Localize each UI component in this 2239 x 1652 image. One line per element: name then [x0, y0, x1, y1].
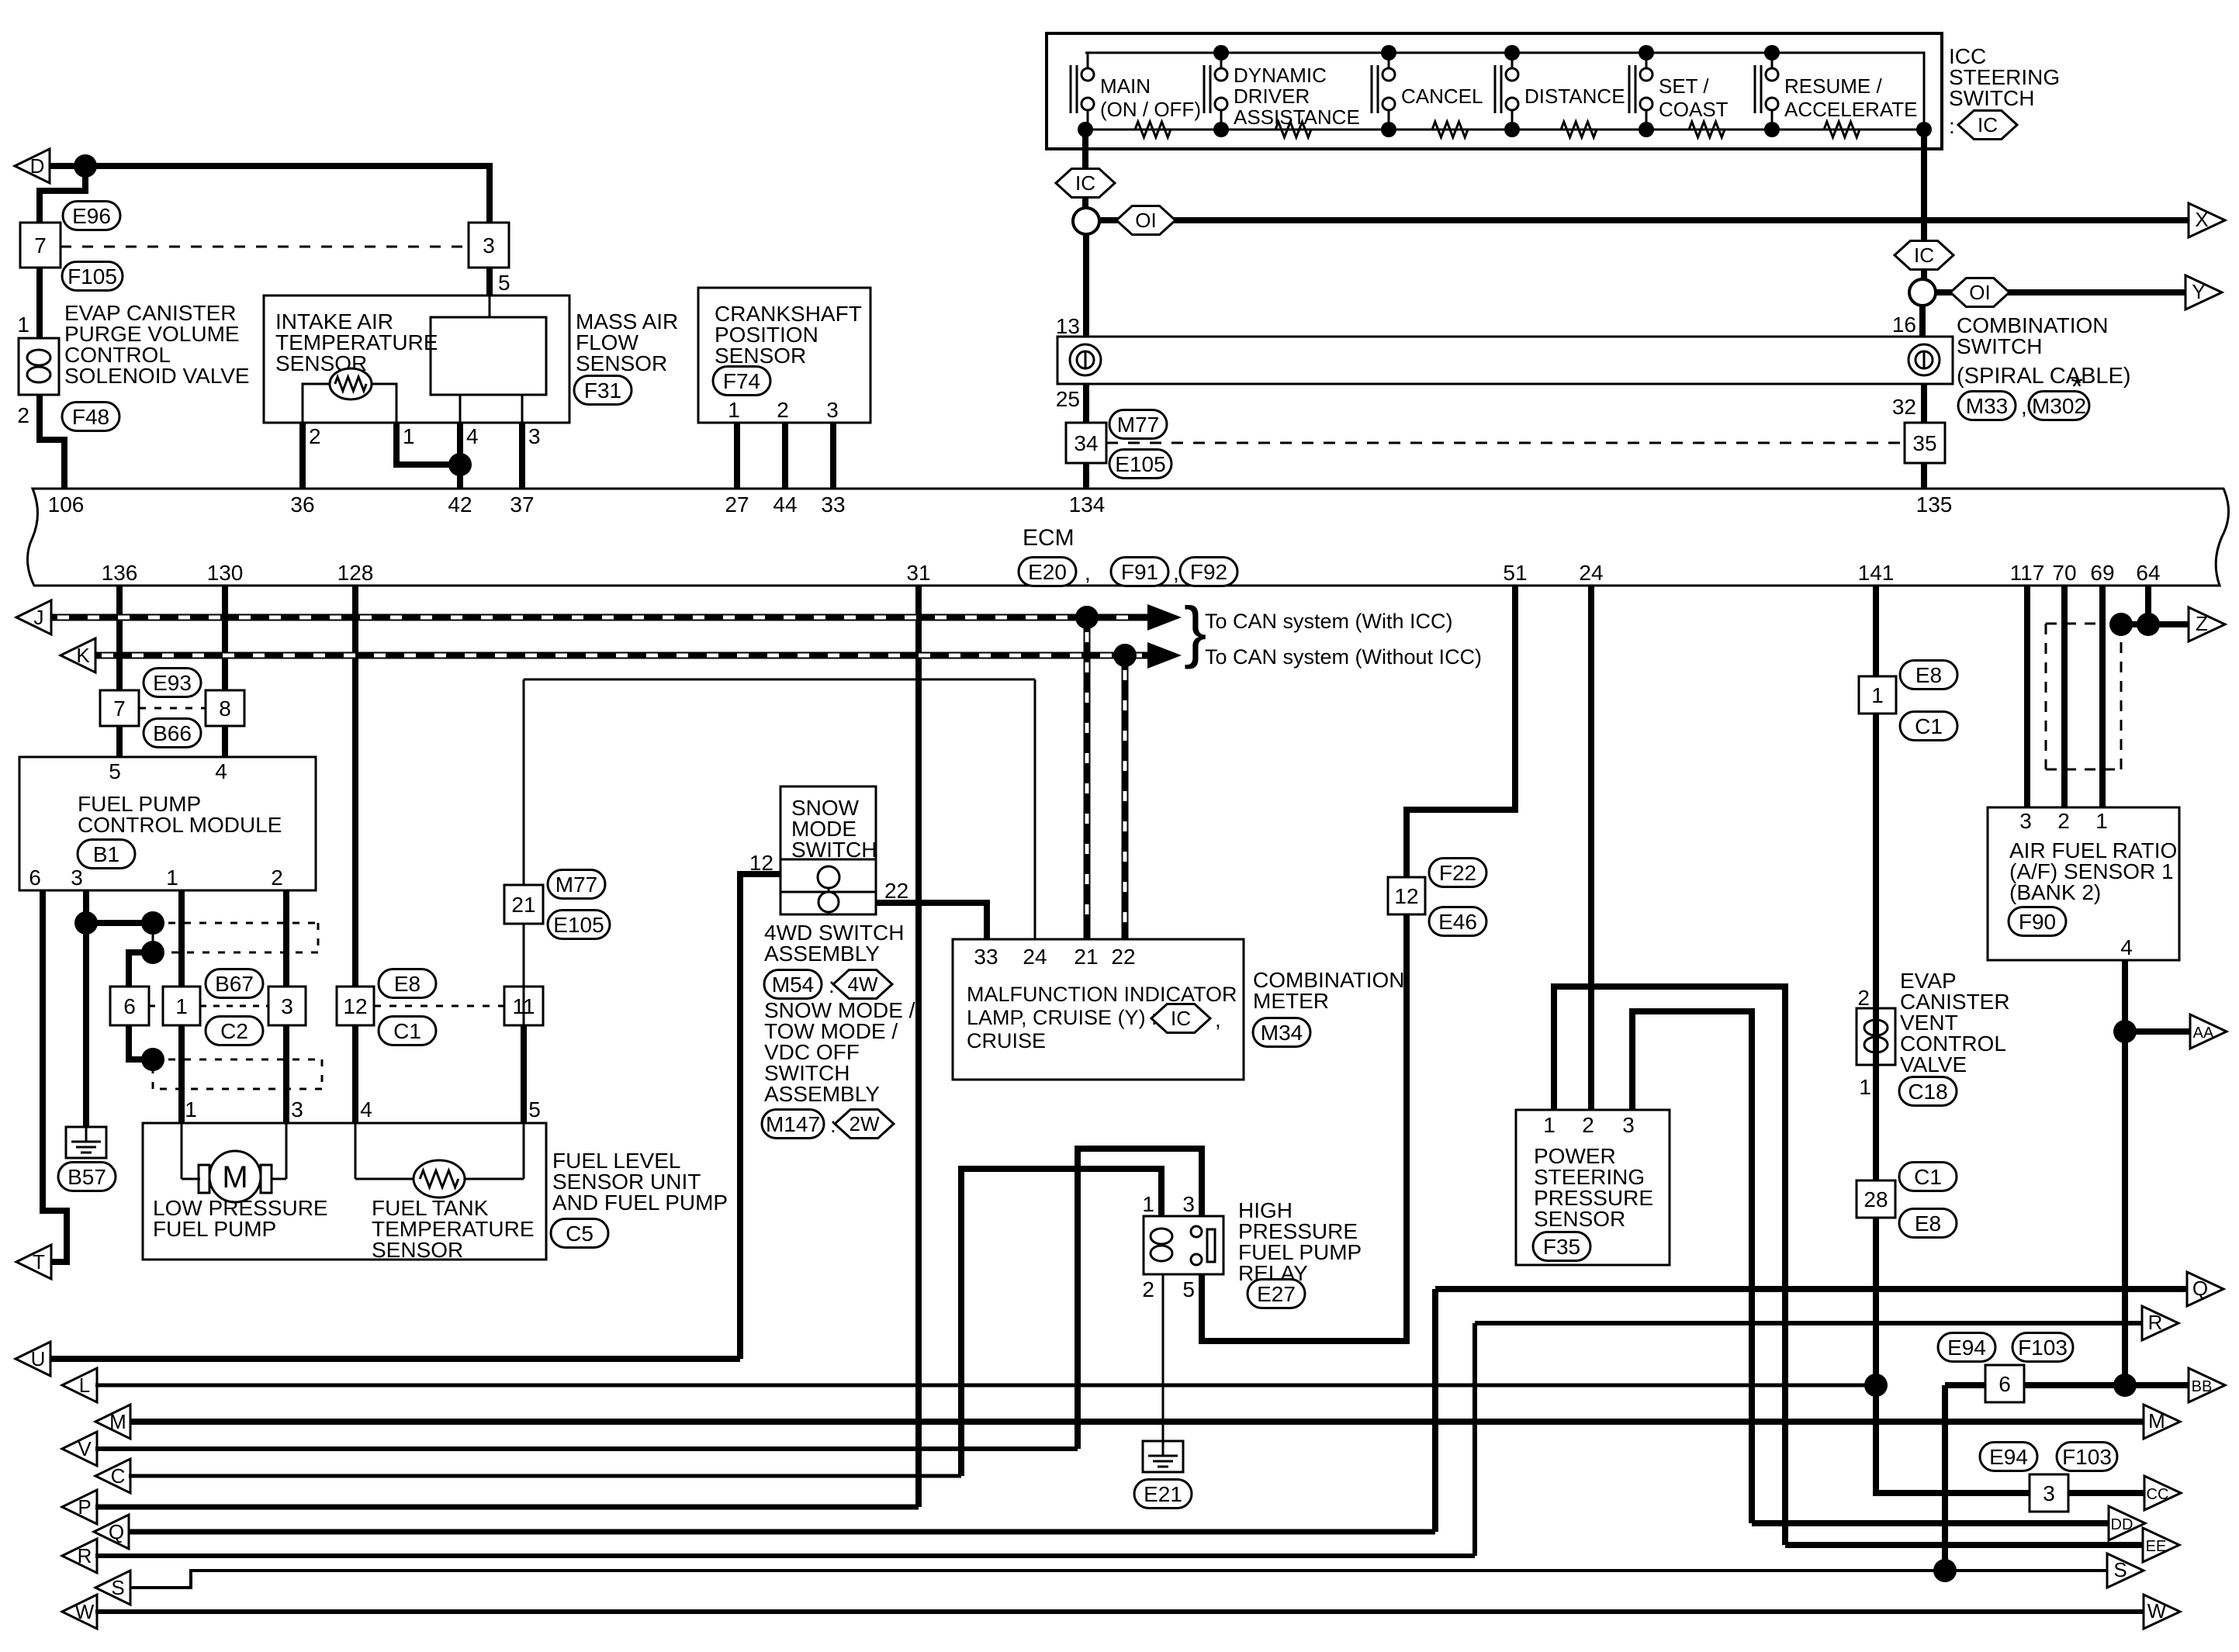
switch DISTANCE	[1494, 65, 1497, 113]
svg-text:SET /: SET /	[1659, 74, 1709, 98]
svg-text:130: 130	[207, 561, 244, 585]
svg-text:B67: B67	[215, 972, 254, 996]
switch CANCEL	[1371, 65, 1373, 113]
P line wire	[95, 1505, 919, 1510]
wire ECM 69 to AF 1	[2099, 586, 2106, 807]
svg-text:C1: C1	[1914, 1165, 1942, 1189]
svg-text:E46: E46	[1438, 910, 1477, 934]
svg-text:C1: C1	[393, 1019, 421, 1043]
junction dot jumper top	[141, 911, 164, 935]
svg-text:F103: F103	[2018, 1336, 2068, 1360]
wire meter 24 vertical	[1034, 679, 1036, 939]
svg-text:U: U	[31, 1347, 46, 1370]
svg-text:ACCELERATE: ACCELERATE	[1784, 98, 1917, 121]
svg-text:5: 5	[109, 759, 121, 783]
svg-text:S: S	[111, 1576, 124, 1599]
svg-text:33: 33	[974, 945, 998, 969]
svg-text:3: 3	[281, 994, 293, 1018]
connector 3 (E96/F105)	[469, 223, 509, 268]
svg-text:13: 13	[1056, 314, 1080, 338]
svg-text:1: 1	[185, 1097, 197, 1121]
svg-text:C5: C5	[566, 1222, 593, 1246]
junction dot J	[1075, 606, 1099, 629]
wire ECM 31 down	[915, 586, 922, 1507]
connector ring left	[1073, 208, 1099, 234]
svg-text:M77: M77	[1117, 413, 1159, 437]
connector M77 top	[1109, 410, 1167, 439]
C line wire	[129, 1474, 961, 1478]
connector E21	[1134, 1480, 1192, 1509]
arrow M left	[95, 1405, 130, 1439]
svg-text:M33: M33	[1966, 394, 2008, 418]
svg-text:M34: M34	[1261, 1021, 1303, 1045]
connector F92	[1180, 558, 1237, 586]
DD line wire	[1752, 1520, 2109, 1526]
EE line wire	[1785, 1542, 2144, 1548]
connector 34 (M77/E105)	[1066, 423, 1106, 463]
wire snow 12 to U line	[740, 874, 780, 1359]
CAN K bus	[95, 652, 1147, 659]
wire PSP 3 to DD line	[1632, 1011, 1752, 1523]
svg-text:CRUISE: CRUISE	[967, 1029, 1046, 1052]
connector B1	[78, 840, 135, 869]
arrow W left	[62, 1595, 97, 1629]
svg-text:R: R	[2148, 1311, 2163, 1334]
svg-text:C: C	[111, 1464, 126, 1488]
resistor after RESUME	[1824, 122, 1860, 137]
svg-text:SWITCH: SWITCH	[1957, 334, 2042, 358]
connector F90	[2009, 907, 2066, 936]
switch SET/COAST	[1628, 65, 1631, 113]
svg-text:2: 2	[271, 866, 283, 890]
junction dot L-141	[1864, 1374, 1888, 1397]
junction dot K	[1113, 644, 1137, 667]
connector 8 (E93/B66)	[206, 690, 244, 726]
svg-text:CC: CC	[2147, 1486, 2169, 1503]
svg-text:M: M	[109, 1410, 126, 1433]
connector F91	[1111, 558, 1168, 586]
wire 32 to connector 35	[1921, 384, 1927, 423]
svg-text:SWITCH: SWITCH	[791, 838, 877, 862]
svg-text:F103: F103	[2062, 1445, 2112, 1469]
connector 11 (E8/C1)	[504, 987, 543, 1025]
connector C2	[206, 1017, 263, 1045]
svg-text:F74: F74	[723, 369, 760, 393]
svg-text:MALFUNCTION INDICATOR: MALFUNCTION INDICATOR	[967, 983, 1237, 1006]
dashed jumper box lower	[153, 1059, 322, 1061]
wire module pin 2 to fuel pump 3	[283, 890, 289, 1123]
svg-text:M147: M147	[766, 1112, 820, 1136]
svg-text:BB: BB	[2192, 1378, 2213, 1395]
svg-text:F22: F22	[1439, 861, 1476, 885]
connector 6 (B67/C2)	[110, 987, 149, 1025]
wire ECM 64 to Z	[2145, 586, 2151, 624]
intake air temperature thermistor	[330, 368, 372, 399]
svg-text:4W: 4W	[848, 973, 878, 996]
wire R riser	[1472, 1323, 1477, 1556]
svg-text:2: 2	[777, 398, 789, 422]
Q right line wire	[1435, 1286, 2188, 1292]
arrow EE	[2143, 1528, 2179, 1562]
svg-text:E94: E94	[1989, 1445, 2028, 1469]
connector B57	[58, 1163, 116, 1191]
connector B66	[144, 719, 201, 748]
svg-text:SENSOR: SENSOR	[576, 351, 667, 375]
svg-text:36: 36	[290, 492, 314, 517]
wire 11 to fuel level pin 5	[521, 1025, 527, 1123]
wire IC to ring right	[1921, 269, 1927, 280]
svg-text:,: ,	[1173, 561, 1179, 585]
svg-text:F90: F90	[2019, 910, 2056, 934]
ICC top rail wire	[1085, 53, 1924, 130]
low pressure fuel pump motor M	[181, 1123, 183, 1179]
svg-text:J: J	[34, 606, 44, 629]
svg-text:SENSOR: SENSOR	[372, 1238, 463, 1262]
wire AF 4 down to BB	[2122, 960, 2128, 1385]
svg-text:ASSEMBLY: ASSEMBLY	[764, 1082, 880, 1106]
wire relay pin3 to V line	[1078, 1149, 1202, 1449]
BB line wire	[1945, 1382, 1986, 1388]
svg-text:DYNAMIC: DYNAMIC	[1234, 64, 1327, 87]
svg-text:M: M	[222, 1160, 247, 1194]
wire module pin 6 to T	[43, 890, 67, 1262]
arrow R right	[2142, 1306, 2178, 1340]
dashed link 1-3	[200, 1005, 268, 1007]
wire IAT pin 1	[372, 384, 396, 423]
svg-text:31: 31	[906, 561, 930, 585]
svg-text:RESUME /: RESUME /	[1784, 74, 1882, 98]
connector 2W tag	[835, 1110, 894, 1139]
connector M77 mid	[548, 870, 605, 899]
svg-text:Y: Y	[2192, 280, 2205, 303]
svg-text:141: 141	[1858, 561, 1895, 585]
svg-text:EE: EE	[2146, 1538, 2167, 1555]
connector 1 (B67/C2)	[163, 987, 200, 1025]
svg-text:C2: C2	[220, 1019, 248, 1043]
svg-text:3: 3	[528, 424, 541, 448]
svg-text:B1: B1	[93, 842, 119, 866]
connector M54	[764, 970, 822, 999]
svg-text:4: 4	[466, 424, 479, 448]
svg-text:(ON / OFF): (ON / OFF)	[1100, 98, 1201, 121]
connector 4W tag	[833, 970, 892, 999]
CAN wire to meter 22	[1122, 655, 1129, 939]
wire ECM 24 to PSP 2	[1588, 586, 1594, 1110]
wire down to connector 21	[523, 679, 525, 1025]
wire ECM 136 down	[116, 586, 123, 691]
connector F48	[62, 403, 119, 431]
svg-text:12: 12	[343, 994, 367, 1018]
svg-text:E93: E93	[153, 671, 192, 695]
junction dot AA	[2113, 1020, 2137, 1043]
dashed link 34-35	[1106, 442, 1905, 444]
arrow R left	[62, 1539, 97, 1573]
svg-text:W: W	[2147, 1599, 2167, 1623]
svg-text:P: P	[78, 1495, 91, 1519]
svg-text:2: 2	[309, 424, 321, 448]
wire ring to comb switch 16	[1919, 306, 1926, 337]
svg-text:F105: F105	[67, 264, 117, 289]
svg-text:E94: E94	[1947, 1336, 1986, 1360]
svg-text:LAMP, CRUISE (Y) :: LAMP, CRUISE (Y) :	[967, 1006, 1158, 1029]
svg-text:1: 1	[175, 994, 188, 1018]
svg-text:35: 35	[1912, 431, 1936, 455]
connector E96	[63, 202, 120, 230]
wire Q riser	[1432, 1289, 1438, 1532]
svg-text:E96: E96	[72, 204, 111, 228]
svg-text:42: 42	[448, 492, 472, 517]
svg-text:ASSEMBLY: ASSEMBLY	[764, 942, 880, 966]
svg-text:Q: Q	[2192, 1277, 2208, 1300]
fuel level sensor unit box	[143, 1123, 546, 1260]
svg-text:1: 1	[2095, 809, 2108, 833]
svg-text:To CAN system (With ICC): To CAN system (With ICC)	[1205, 610, 1453, 633]
svg-text:L: L	[79, 1374, 90, 1397]
junction dot shield	[2109, 613, 2133, 636]
svg-text:M77: M77	[555, 873, 597, 897]
connector 3 (B67/C2)	[268, 987, 306, 1025]
svg-text:SWITCH: SWITCH	[1949, 86, 2034, 110]
wire MAF 36	[299, 420, 306, 426]
svg-text:T: T	[33, 1250, 45, 1274]
wire relay pin1 to C line	[961, 1169, 1161, 1476]
connector IC tag	[1958, 111, 2017, 140]
svg-text:22: 22	[1111, 945, 1135, 969]
crankshaft position sensor F74 box	[698, 288, 870, 423]
svg-text:IC: IC	[1978, 113, 1998, 137]
arrow T	[16, 1245, 51, 1279]
combination meter M34 box	[953, 939, 1244, 1080]
svg-text:DRIVER: DRIVER	[1234, 85, 1310, 108]
svg-text:16: 16	[1892, 313, 1916, 337]
svg-text:E8: E8	[1915, 663, 1942, 687]
connector E94 upper	[1938, 1333, 1995, 1362]
svg-text:(SPIRAL CABLE): (SPIRAL CABLE)	[1957, 364, 2131, 389]
svg-text:Z: Z	[2196, 612, 2208, 635]
svg-text:5: 5	[1182, 1277, 1195, 1301]
connector F74	[713, 367, 770, 396]
svg-text:1: 1	[17, 313, 29, 337]
svg-text:8: 8	[219, 696, 231, 721]
relay contact	[1191, 1226, 1202, 1237]
arrow C	[95, 1459, 130, 1493]
svg-text:VALVE: VALVE	[1900, 1052, 1967, 1077]
arrow Z	[2189, 607, 2225, 641]
svg-text:24: 24	[1579, 561, 1603, 585]
power steering pressure sensor F35 box	[1516, 1110, 1670, 1265]
wire CKP 1 to ECM 27	[734, 423, 740, 489]
shield dashed box	[2045, 624, 2047, 769]
svg-text:SENSOR: SENSOR	[1534, 1207, 1625, 1231]
svg-text:3: 3	[2019, 809, 2032, 833]
wire relay pin5 to connector 12	[1202, 896, 1407, 1341]
wire MAF 5 inner	[489, 295, 491, 317]
svg-text:28: 28	[1864, 1187, 1888, 1211]
wire solenoid pin 2 to ECM 106	[40, 395, 64, 489]
connector E46	[1429, 907, 1486, 936]
wire 141 corner to CC	[1876, 1385, 2031, 1493]
jumper wire dot to dot	[86, 920, 153, 926]
wire IC to ring	[1082, 197, 1088, 209]
svg-text:25: 25	[1056, 387, 1080, 411]
X line wire	[1099, 217, 2189, 223]
connector F31	[574, 376, 632, 405]
svg-text:K: K	[76, 644, 90, 667]
svg-text:FUEL PUMP: FUEL PUMP	[153, 1217, 276, 1241]
svg-text:2: 2	[1142, 1277, 1154, 1301]
switch MAIN (ON/OFF)	[1070, 65, 1072, 113]
svg-text:1: 1	[1859, 1075, 1871, 1099]
svg-text:B66: B66	[153, 721, 192, 745]
svg-text:4: 4	[215, 759, 227, 783]
connector C18	[1899, 1077, 1957, 1106]
svg-text:2: 2	[1582, 1113, 1594, 1137]
arrow P	[62, 1490, 97, 1524]
connector E105 top	[1109, 450, 1171, 479]
wire module pin 3 to ground B57	[83, 890, 89, 1127]
connector F103 upper	[2012, 1333, 2073, 1362]
connector F103 lower	[2057, 1443, 2117, 1471]
svg-text:E105: E105	[1115, 452, 1165, 476]
svg-text:44: 44	[773, 492, 797, 517]
svg-text:V: V	[78, 1437, 92, 1460]
connector 3 (E94/F103)	[2030, 1474, 2068, 1512]
svg-text:1: 1	[1543, 1113, 1556, 1137]
svg-text:136: 136	[102, 561, 138, 585]
svg-text:27: 27	[725, 492, 749, 517]
M line wire	[130, 1419, 2144, 1425]
resistor after DYNAMIC	[1275, 122, 1311, 137]
arrow W right	[2144, 1595, 2180, 1629]
wire ECM 130 down	[222, 586, 228, 691]
junction dot S	[1933, 1559, 1957, 1582]
dashed link 6-1	[149, 1005, 163, 1007]
wire ICC left to IC hexagon	[1082, 130, 1088, 169]
dashed link 7-8	[139, 707, 206, 710]
dashed link 12-11	[374, 1005, 504, 1007]
svg-text:128: 128	[337, 561, 374, 585]
svg-text:R: R	[78, 1544, 92, 1567]
svg-text:5: 5	[528, 1097, 541, 1121]
arrow S left	[95, 1571, 130, 1605]
wire 8 to module pin 4	[222, 726, 228, 757]
junction dot on D wire	[74, 154, 97, 178]
svg-text:7: 7	[113, 696, 126, 721]
svg-text:D: D	[30, 154, 45, 178]
junction dot 64	[2137, 613, 2160, 636]
svg-text:C1: C1	[1915, 714, 1943, 738]
connector 12 (E8/C1)	[337, 987, 374, 1025]
svg-text:E27: E27	[1257, 1282, 1296, 1306]
svg-text:64: 64	[2136, 561, 2160, 585]
svg-text:3: 3	[483, 233, 495, 257]
svg-text:6: 6	[1998, 1372, 2011, 1396]
junction dot jumper mid	[141, 941, 164, 964]
svg-text:S: S	[2113, 1558, 2127, 1581]
svg-text:CANCEL: CANCEL	[1401, 85, 1483, 108]
svg-text:,: ,	[1215, 1007, 1221, 1032]
svg-text:SOLENOID VALVE: SOLENOID VALVE	[64, 364, 250, 388]
connector C5	[551, 1219, 608, 1248]
svg-text:106: 106	[48, 492, 85, 517]
svg-text:32: 32	[1892, 395, 1916, 419]
svg-text:37: 37	[510, 492, 534, 517]
connector C1 fuel	[379, 1017, 436, 1045]
svg-text:ASSISTANCE: ASSISTANCE	[1234, 105, 1360, 129]
dashed jumper box upper	[153, 922, 318, 924]
connector M147	[762, 1110, 824, 1139]
high pressure fuel pump relay E27 box	[1144, 1216, 1223, 1274]
connector E20	[1019, 558, 1076, 586]
spiral cable symbol right	[1909, 344, 1940, 375]
svg-text:3: 3	[826, 398, 839, 422]
svg-text:22: 22	[884, 879, 908, 903]
fuel pump control module B1 box	[19, 757, 316, 890]
wire ECM 117 to AF 3	[2024, 586, 2030, 807]
svg-text:1: 1	[403, 424, 415, 448]
svg-text:E21: E21	[1144, 1482, 1182, 1506]
wire S riser to BB	[1942, 1385, 1948, 1571]
svg-text:5: 5	[498, 271, 510, 295]
arrow M right	[2144, 1405, 2180, 1439]
svg-text:6: 6	[29, 866, 41, 890]
wire IAT pin 2	[303, 384, 330, 423]
svg-text:ECM: ECM	[1023, 525, 1075, 551]
arrow Q left	[94, 1515, 129, 1549]
arrow BB	[2189, 1368, 2225, 1402]
svg-text:B57: B57	[67, 1165, 106, 1189]
svg-text:7: 7	[34, 233, 47, 257]
svg-text:1: 1	[166, 866, 178, 890]
svg-text:OI: OI	[1969, 281, 1990, 304]
svg-text:M54: M54	[772, 973, 814, 997]
IC hexagon right	[1895, 241, 1954, 270]
R right line wire	[1475, 1321, 2143, 1325]
arrow DD	[2109, 1506, 2145, 1540]
OI hexagon right	[1950, 278, 2009, 307]
connector F105	[62, 262, 123, 291]
svg-text:134: 134	[1069, 492, 1106, 517]
connector M33	[1958, 392, 2016, 420]
connector 7 (E96/F105)	[20, 223, 61, 268]
CC line wire	[2069, 1490, 2145, 1496]
wire PSP 1 to EE line	[1554, 987, 1785, 1545]
wire jumper to connector 6	[129, 952, 153, 987]
svg-text:OI: OI	[1135, 209, 1156, 232]
Q line wire	[129, 1529, 1435, 1535]
arrow CC	[2144, 1476, 2181, 1510]
connector 35 (M77/E105)	[1905, 423, 1945, 463]
wire ECM 141 down	[1873, 586, 1879, 1385]
connector ring right	[1909, 279, 1936, 306]
svg-text:4: 4	[360, 1097, 372, 1121]
wire CKP 2 to ECM 44	[782, 423, 788, 489]
ground B57	[66, 1127, 106, 1158]
svg-text:METER: METER	[1253, 989, 1329, 1013]
W line wire	[95, 1609, 2144, 1614]
arrow Y	[2185, 275, 2222, 309]
svg-text:117: 117	[2010, 561, 2045, 585]
svg-text:SENSOR: SENSOR	[715, 344, 806, 368]
junction dot BB-AF4	[2113, 1374, 2137, 1397]
CAN wire to meter 21	[1084, 617, 1091, 939]
switch DYNAMIC DRIVER ASSISTANCE	[1203, 65, 1206, 113]
EVAP canister purge volume control solenoid valve F48 coil	[19, 338, 59, 395]
svg-text:E8: E8	[394, 972, 420, 996]
resistor after SET	[1689, 122, 1725, 137]
L line wire	[95, 1384, 1876, 1388]
connector F35	[1533, 1232, 1590, 1261]
